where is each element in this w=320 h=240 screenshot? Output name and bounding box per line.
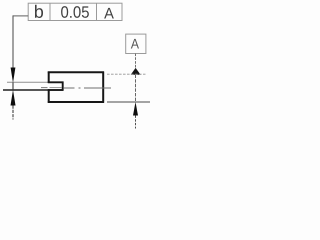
slot bottom edge	[48, 89, 64, 91]
slot end vertical	[62, 82, 64, 91]
right dimension line between extension lines	[135, 75, 137, 102]
part outline: top edge	[48, 71, 104, 73]
datum letter A	[131, 39, 139, 49]
bottom right extension line	[107, 101, 150, 103]
up arrow of slot width dimension	[11, 90, 16, 106]
top right extension line (datum surface extended)	[107, 73, 146, 75]
upper extension line (slot top edge extended left)	[7, 81, 48, 83]
slot top edge	[48, 81, 64, 83]
datum feature box A	[126, 34, 146, 53]
lower extension line (slot bottom edge extended left)	[3, 89, 48, 91]
dimension line tail below up arrow	[12, 106, 14, 120]
part outline: left edge lower segment	[48, 89, 50, 103]
leader from datum box down to triangle	[135, 54, 137, 69]
centerline dot	[79, 87, 81, 89]
part outline: bottom edge	[48, 101, 104, 103]
cell divider 2	[96, 3, 98, 20]
shaft between arrows	[12, 83, 14, 91]
down arrow of slot width dimension	[11, 68, 16, 84]
centerline (dash-dot)	[41, 87, 48, 89]
cell divider 1	[49, 3, 51, 20]
leader from frame: vertical down	[12, 15, 14, 69]
leader from frame: horizontal	[13, 15, 28, 17]
centerline dash after slot	[64, 87, 75, 89]
feature control frame box	[28, 3, 122, 20]
part outline: right edge	[102, 72, 104, 103]
symbol cell text b	[35, 5, 43, 18]
datum filled triangle on extension line	[131, 68, 141, 75]
centerline long dash	[84, 87, 111, 89]
centerline inside slot	[50, 87, 63, 89]
tolerance value 0.05	[61, 6, 89, 18]
part outline: left edge upper segment	[48, 72, 50, 84]
right dimension tail	[135, 116, 137, 129]
up arrow on right dimension	[133, 102, 138, 116]
datum reference letter A in frame	[104, 8, 114, 19]
